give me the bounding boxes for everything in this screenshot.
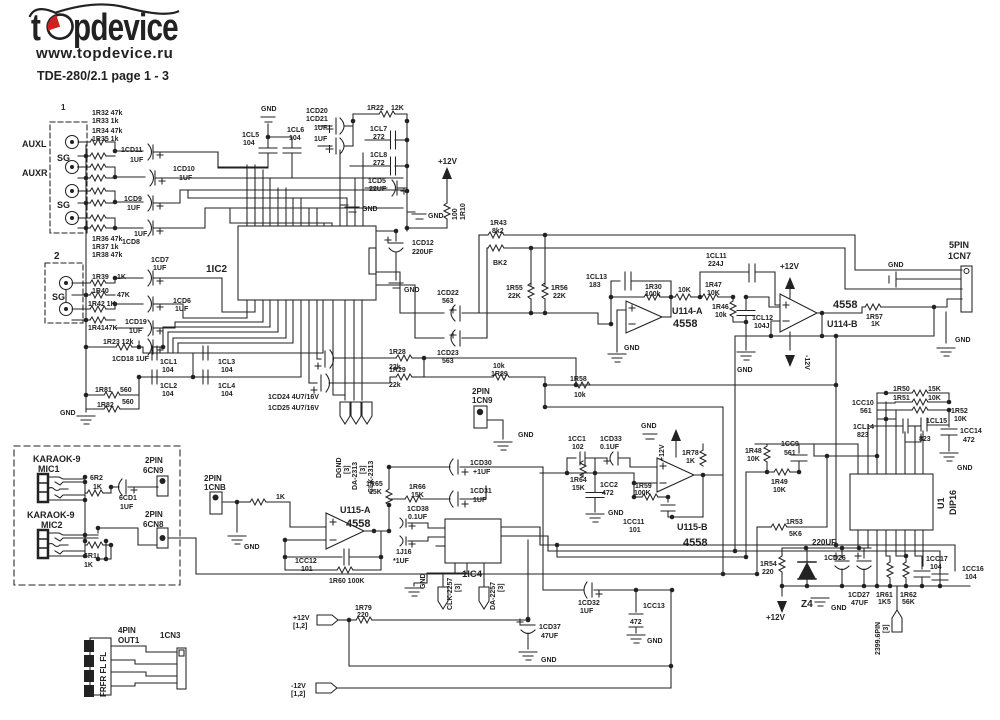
svg-text:OUT1: OUT1 — [118, 636, 140, 645]
connector tag CLK-2257 — [438, 587, 448, 609]
connector 6CN8 — [157, 528, 168, 548]
svg-text:[3]: [3] — [498, 583, 505, 592]
capacitor 1CD18 — [137, 327, 270, 355]
capacitor 1CL13 feedback — [609, 272, 671, 324]
svg-text:1K: 1K — [84, 562, 93, 569]
svg-text:+12V: +12V — [766, 613, 786, 622]
wire sg1 — [77, 166, 80, 168]
svg-text:104: 104 — [162, 391, 174, 398]
capacitor 1CC11 101 — [661, 497, 703, 519]
svg-text:1UF: 1UF — [134, 231, 148, 238]
svg-text:MIC1: MIC1 — [38, 464, 60, 474]
label U115-A 4558 — [340, 505, 371, 530]
svg-text:1CD25 4U7/16V: 1CD25 4U7/16V — [268, 405, 319, 412]
label 1CD11 — [121, 147, 144, 164]
wire row 444 — [755, 444, 858, 456]
svg-text:1R36 47k: 1R36 47k — [92, 236, 122, 243]
capacitor 1CD11 — [148, 144, 218, 168]
jack MIC2 — [38, 530, 48, 558]
label 1CD23 563 — [437, 350, 459, 365]
svg-text:1CL6: 1CL6 — [287, 127, 304, 134]
wire to U114-A minus — [479, 313, 613, 326]
svg-text:GND: GND — [647, 638, 663, 645]
svg-text:1R23 12k: 1R23 12k — [103, 339, 133, 346]
wire row B 377 — [139, 353, 301, 379]
label 1R54 220 — [760, 561, 777, 576]
connector DA-2313 tag — [351, 402, 361, 424]
karaoke dashed box — [14, 446, 180, 585]
label U115-B 4558 — [677, 522, 708, 549]
svg-text:GND: GND — [831, 605, 847, 612]
wire mesh row 557 — [557, 545, 748, 559]
label 1CC16 104 — [962, 566, 984, 581]
label 2399.6PIN [3] rotated — [875, 622, 890, 655]
label 1R57 1K — [866, 314, 883, 328]
svg-text:1IC2: 1IC2 — [206, 264, 228, 275]
IC4 left pin3 — [436, 545, 445, 547]
resistor 1R28 22k — [333, 355, 424, 361]
connector OUT1 body — [90, 638, 111, 695]
capacitor 1CC10 561 — [878, 402, 895, 421]
label 1CC12 101 — [295, 558, 317, 573]
svg-text:1R89: 1R89 — [491, 371, 508, 378]
power +12V arrow U115-B — [671, 429, 681, 457]
label 1CL2 104 — [160, 383, 177, 398]
svg-text:1R43: 1R43 — [490, 220, 507, 227]
svg-text:1CL3: 1CL3 — [218, 359, 235, 366]
svg-text:1CL2: 1CL2 — [160, 383, 177, 390]
U114-A plus input wire to GND — [617, 310, 626, 352]
power tag -12V [1,2] — [316, 683, 337, 693]
power tag +12V [1,2] — [317, 615, 338, 625]
svg-text:4PIN: 4PIN — [118, 626, 136, 635]
svg-text:5PIN: 5PIN — [949, 240, 969, 250]
svg-text:1UF: 1UF — [120, 504, 134, 511]
svg-text:GND: GND — [244, 544, 260, 551]
label 1R46 10k — [712, 304, 729, 319]
svg-text:1CD38: 1CD38 — [407, 506, 429, 513]
svg-text:472: 472 — [630, 619, 642, 626]
label 1CL12 104J — [752, 315, 773, 330]
resistor 1R82 560 — [86, 375, 141, 412]
svg-text:1R4147K: 1R4147K — [88, 325, 118, 332]
wire rows group2 — [115, 278, 143, 304]
svg-text:220UF: 220UF — [412, 249, 434, 256]
svg-text:1CN9: 1CN9 — [472, 396, 493, 405]
svg-text:2PIN: 2PIN — [472, 387, 490, 396]
resistor 1R46 10k vertical — [730, 297, 746, 322]
mic2 wires — [85, 487, 158, 559]
svg-text:-12V: -12V — [291, 683, 306, 690]
label 1CC9 561 — [781, 441, 799, 457]
junction dots input bus — [84, 149, 118, 231]
resistor r5 — [78, 188, 115, 202]
svg-text:SG: SG — [57, 200, 70, 210]
label DGND [3] DA-2313 [3] CLK-2313 rotated — [336, 457, 375, 493]
label -12V [1,2] — [291, 683, 306, 698]
label 1CD9 — [124, 196, 142, 212]
svg-text:1CC11: 1CC11 — [623, 519, 645, 526]
svg-text:[3]: [3] — [344, 465, 351, 474]
svg-text:1K5: 1K5 — [878, 599, 891, 606]
label 6CD1 1UF — [119, 495, 137, 511]
capacitor 1CD31 — [450, 486, 487, 507]
svg-text:10K: 10K — [678, 287, 691, 294]
wire mesh caps to IC2 top — [188, 152, 347, 223]
svg-text:561: 561 — [860, 408, 872, 415]
svg-text:1CD6: 1CD6 — [173, 298, 191, 305]
svg-text:DIP16: DIP16 — [948, 490, 958, 515]
wire row 220UF — [782, 546, 871, 551]
resistor 1R59 100K — [634, 494, 670, 500]
label 1CC17 104 — [926, 556, 948, 571]
svg-text:823: 823 — [857, 432, 869, 439]
label 1UF 1UF — [314, 125, 328, 143]
svg-text:+12V: +12V — [780, 262, 800, 271]
capacitor 1CL7 272 — [365, 131, 407, 149]
label KARAOK-9 MIC2 — [27, 510, 75, 530]
ground GND IC4 — [405, 588, 423, 596]
resistor 1R61 1K5 vertical — [887, 556, 893, 586]
resistor 1R41 — [86, 317, 115, 323]
resistor 1R64 15K vertical — [580, 461, 586, 477]
wire row 456 — [814, 454, 879, 459]
svg-text:2PIN: 2PIN — [145, 456, 163, 465]
svg-text:104: 104 — [289, 135, 301, 142]
svg-text:1R37 1k: 1R37 1k — [92, 244, 119, 251]
resistor 10K — [671, 294, 702, 300]
label 1R79 220 — [355, 605, 372, 619]
label 2PIN 1CNB — [204, 474, 226, 492]
label FR FR FL FL rotated — [99, 652, 108, 697]
ground GND 1CC13 — [627, 635, 645, 643]
capacitor 1CL4 104 — [203, 370, 208, 384]
resistor 1R56 22K vertical — [542, 235, 548, 315]
resistor 1R54 220 vertical — [779, 548, 785, 588]
svg-text:1UF: 1UF — [153, 265, 167, 272]
svg-text:1CD5: 1CD5 — [368, 178, 386, 185]
connector 1CN9 — [474, 406, 487, 428]
label 1CD24 1CD25 — [268, 394, 319, 412]
svg-text:1CC2: 1CC2 — [600, 482, 618, 489]
ground GND 1CC2 — [586, 514, 604, 522]
ground GND 1CD37 — [519, 652, 537, 660]
svg-text:1R38 47k: 1R38 47k — [92, 252, 122, 259]
mic2 junctions — [83, 526, 114, 562]
svg-text:1CL8: 1CL8 — [370, 152, 387, 159]
label 1R39 1K — [92, 274, 126, 281]
capacitor 1CC12 feedback — [283, 540, 384, 565]
svg-text:1R78: 1R78 — [682, 450, 699, 457]
svg-text:1CD12: 1CD12 — [412, 240, 434, 247]
capacitor 1CD38 0.1UF — [400, 518, 445, 529]
vertical 1CD30 col — [542, 467, 544, 590]
label 1CL15 823 — [919, 418, 947, 443]
svg-text:1K: 1K — [686, 458, 695, 465]
svg-text:15K: 15K — [928, 386, 941, 393]
svg-text:101: 101 — [629, 527, 641, 534]
svg-text:1R53: 1R53 — [786, 519, 803, 526]
svg-text:4558: 4558 — [346, 518, 370, 530]
svg-text:104: 104 — [221, 367, 233, 374]
capacitor 1CC13 472 — [629, 590, 643, 633]
svg-text:GND: GND — [261, 106, 277, 113]
svg-text:FRFR FL FL: FRFR FL FL — [99, 652, 108, 697]
svg-text:8k2: 8k2 — [492, 228, 504, 235]
svg-text:GND: GND — [518, 432, 534, 439]
label 5PIN 1CN7 — [948, 240, 971, 261]
svg-text:1CL12: 1CL12 — [752, 315, 773, 322]
label 1R56 22K — [551, 285, 568, 300]
svg-text:1CL5: 1CL5 — [242, 132, 259, 139]
resistor 1R23 12k — [86, 344, 143, 350]
capacitor 6CD1 1UF — [111, 479, 158, 495]
svg-text:22K: 22K — [508, 293, 521, 300]
wire -12V bottom run — [337, 687, 671, 689]
ground GND 1CNB — [228, 536, 246, 544]
svg-text:+1UF: +1UF — [473, 469, 491, 476]
resistor 1R49 10K row — [746, 469, 799, 475]
junction dots mic1 — [83, 475, 114, 503]
capacitor 1CL2 104 — [152, 370, 157, 384]
label 1CC14 472 — [960, 428, 982, 444]
wire net 1R43 row — [479, 232, 962, 313]
svg-text:472: 472 — [602, 490, 614, 497]
label 2PIN 6CN9 — [143, 456, 164, 475]
label 1CL7 272 — [370, 126, 387, 141]
vertical mesh x746 — [745, 472, 747, 557]
svg-text:GND: GND — [737, 367, 753, 374]
svg-text:10k: 10k — [715, 312, 727, 319]
label 1J16 *1UF — [393, 549, 412, 565]
svg-text:1R51: 1R51 — [893, 395, 910, 402]
svg-text:1CD10: 1CD10 — [173, 166, 195, 173]
label 1CD5 22UF — [368, 178, 387, 193]
svg-text:272: 272 — [373, 134, 385, 141]
svg-text:TDE-280/2.1 page 1 - 3: TDE-280/2.1 page 1 - 3 — [37, 69, 169, 83]
svg-text:[1,2]: [1,2] — [291, 691, 305, 698]
svg-text:1CD31: 1CD31 — [470, 488, 492, 495]
label 1R28 22k — [389, 349, 406, 371]
label 1R48 10K — [745, 448, 762, 463]
resistor 1R55 22K vertical — [528, 248, 534, 315]
svg-text:GND: GND — [624, 345, 640, 352]
label 1R58 10k — [570, 376, 587, 399]
jack MIC2 contacts — [48, 533, 98, 556]
svg-text:4558: 4558 — [683, 537, 707, 549]
svg-text:1R32 47k: 1R32 47k — [92, 110, 122, 117]
resistor 1R57 1K — [822, 304, 936, 313]
label 1CL3 104 — [218, 359, 235, 374]
svg-text:1UF: 1UF — [580, 608, 594, 615]
capacitor 1CL8 272 — [350, 157, 407, 175]
svg-text:GND: GND — [60, 410, 76, 417]
label 1CC11 101 — [623, 519, 645, 534]
label 1R51 10K — [893, 395, 941, 402]
label 1CL13 183 — [586, 274, 607, 289]
svg-text:1K: 1K — [871, 321, 880, 328]
label 1CL1 104 — [160, 359, 177, 374]
svg-text:GND: GND — [957, 465, 973, 472]
svg-text:1R62: 1R62 — [900, 592, 917, 599]
capacitor 1CD5 22UF — [365, 180, 407, 196]
svg-text:183: 183 — [589, 282, 601, 289]
svg-text:22k: 22k — [389, 382, 401, 389]
label 1R59 100K — [634, 483, 652, 497]
svg-text:U115-A: U115-A — [340, 505, 371, 515]
IC4 right pins — [501, 527, 548, 551]
svg-text:15K: 15K — [369, 489, 382, 496]
connector DGND tag — [340, 402, 350, 424]
svg-text:GND: GND — [888, 262, 904, 269]
wire feedback row y336 — [735, 307, 934, 338]
svg-text:1CC14: 1CC14 — [960, 428, 982, 435]
svg-text:U114-B: U114-B — [827, 319, 858, 329]
capacitor 1CL6 — [268, 137, 301, 178]
label 1R23 12k — [103, 339, 133, 346]
capacitor 1CD24 — [315, 350, 334, 369]
svg-text:AUXL: AUXL — [22, 139, 47, 149]
label 1CD19 — [125, 319, 147, 335]
connector tag 6PIN up — [892, 586, 902, 632]
label 6R2 1K — [90, 475, 103, 491]
label 1CC10 561 — [852, 400, 874, 415]
svg-text:1CD8: 1CD8 — [122, 239, 140, 246]
ground GND 1CL12 — [737, 352, 755, 360]
resistor 1R29 22k — [390, 358, 424, 380]
capacitor 1CD7 — [148, 270, 255, 312]
label 1CD22 563 — [437, 290, 459, 305]
svg-text:+12V: +12V — [438, 157, 458, 166]
label 1R62 56K — [900, 592, 917, 606]
svg-text:15K: 15K — [572, 485, 585, 492]
resistor 1R34 — [78, 164, 115, 177]
svg-text:1UF: 1UF — [175, 306, 189, 313]
label 1R82 560 — [97, 399, 134, 409]
label 1R53 5K6 — [786, 519, 803, 538]
svg-text:563: 563 — [442, 298, 454, 305]
label 1CL11 224J — [706, 253, 727, 268]
label 1R81 560 — [95, 387, 132, 394]
svg-text:U114-A: U114-A — [672, 306, 703, 316]
svg-text:1UF: 1UF — [314, 136, 328, 143]
svg-text:0.1UF: 0.1UF — [600, 444, 620, 451]
svg-text:4558: 4558 — [833, 299, 857, 311]
svg-text:1CC12: 1CC12 — [295, 558, 317, 565]
label 1CD7 — [151, 257, 169, 272]
U115-A minus wire — [283, 538, 326, 543]
input ground bus vertical — [85, 145, 87, 412]
svg-text:1CNB: 1CNB — [204, 483, 226, 492]
connector 6CN9 — [157, 476, 168, 496]
svg-text:1CD23: 1CD23 — [437, 350, 459, 357]
label 1R55 22K — [506, 285, 523, 300]
svg-text:2PIN: 2PIN — [204, 474, 222, 483]
IC2 top pins — [247, 150, 363, 226]
svg-text:560: 560 — [122, 399, 134, 406]
label 1CD18 — [112, 356, 150, 363]
wire row 586 — [782, 584, 970, 589]
RCA jack J6 — [60, 303, 73, 316]
svg-text:GND: GND — [404, 287, 420, 294]
svg-text:10k: 10k — [574, 392, 586, 399]
wire mesh row 545 — [501, 527, 955, 571]
svg-text:10K: 10K — [773, 487, 786, 494]
resistor 1K input — [237, 499, 326, 527]
capacitor 1CD9 — [148, 190, 403, 211]
wire +12V bottom run — [349, 620, 673, 668]
svg-text:823: 823 — [919, 436, 931, 443]
svg-text:GND: GND — [420, 573, 427, 589]
svg-text:104: 104 — [965, 574, 977, 581]
capacitor 1CD27 electrolytic — [855, 548, 871, 588]
svg-text:1CD33: 1CD33 — [600, 436, 622, 443]
net vertical right of IC2 — [405, 119, 410, 231]
svg-text:472: 472 — [963, 437, 975, 444]
svg-text:56K: 56K — [902, 599, 915, 606]
svg-text:1R54: 1R54 — [760, 561, 777, 568]
svg-text:GND: GND — [641, 423, 657, 430]
label 1CD8 — [122, 231, 148, 246]
capacitor 1CC9 561 — [791, 444, 807, 474]
IC 1IC4 box — [445, 519, 501, 563]
wire row 473 — [540, 458, 634, 475]
svg-text:1CL4: 1CL4 — [218, 383, 235, 390]
resistor 1R40 — [86, 292, 115, 298]
capacitor 1CC14 472 — [941, 410, 957, 451]
svg-text:1CC10: 1CC10 — [852, 400, 874, 407]
label 2PIN 1CN9 — [472, 387, 493, 405]
svg-text:1CD32: 1CD32 — [578, 600, 600, 607]
label KARAOK-9 MIC1 — [33, 454, 81, 474]
label 1CD37 47UF — [539, 624, 561, 640]
svg-text:1R48: 1R48 — [745, 448, 762, 455]
connector group 2 dashed box — [45, 263, 83, 323]
svg-text:1R60 100K: 1R60 100K — [329, 578, 364, 585]
svg-text:+12V: +12V — [293, 615, 310, 622]
label U114-A 4558 — [672, 306, 703, 330]
svg-text:1CL7: 1CL7 — [370, 126, 387, 133]
svg-text:1R58: 1R58 — [570, 376, 587, 383]
svg-text:*1UF: *1UF — [393, 558, 410, 565]
svg-text:1UF: 1UF — [473, 497, 487, 504]
label CLK-2257 (3) rotated — [447, 578, 462, 610]
ground GND U114-A — [608, 354, 626, 362]
capacitor 1CD6 — [148, 296, 247, 318]
label 1CD38 0.1UF — [407, 506, 429, 521]
label 1CD30 — [470, 460, 492, 476]
svg-text:10K: 10K — [928, 395, 941, 402]
label 1CD6 — [173, 298, 191, 313]
svg-text:6CD1: 6CD1 — [119, 495, 137, 502]
svg-text:1CL14: 1CL14 — [853, 424, 874, 431]
svg-text:22K: 22K — [553, 293, 566, 300]
svg-text:1R33 1k: 1R33 1k — [92, 118, 119, 125]
label 1CD27 47UF — [848, 592, 870, 607]
wire J5-J6 — [65, 290, 67, 303]
wire mesh row 574 — [168, 538, 759, 576]
resistor r6 — [86, 200, 115, 206]
svg-text:[1,2]: [1,2] — [293, 623, 307, 630]
svg-text:GND: GND — [955, 337, 971, 344]
ground GND top — [261, 117, 275, 139]
wire cap rows — [115, 151, 145, 228]
capacitor 1CD33 0.1UF — [604, 452, 657, 467]
svg-text:224J: 224J — [708, 261, 724, 268]
svg-text:104J: 104J — [754, 323, 770, 330]
ground GND Z4 row — [807, 586, 829, 606]
svg-text:1R40: 1R40 — [92, 288, 109, 295]
